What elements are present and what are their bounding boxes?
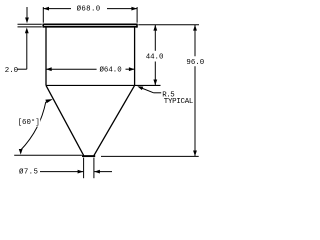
dimension Ø7.5 right extension line: [93, 158, 95, 179]
dimension Ø68.0 left arrowhead: [43, 7, 49, 11]
leader R.5 horizontal segment: [154, 92, 162, 94]
dimension Ø68.0 right arrowhead: [131, 7, 137, 11]
flange left edge: [42, 24, 44, 28]
dimension 44.0 and 96.0 upper extension line: [138, 24, 199, 26]
dimension 2.0 lower arrowhead: [25, 28, 29, 34]
dimension Ø7.5 right arrowhead: [94, 170, 100, 174]
dimension 96.0 line lower segment: [194, 66, 196, 156]
body right wall: [134, 27, 136, 85]
dimension 2.0 leader horizontal: [17, 68, 26, 70]
dimension 96.0 line upper segment: [194, 25, 196, 56]
funnel top face edge: [43, 23, 137, 25]
dimension 44.0 line lower segment: [154, 62, 156, 86]
angle dimension lower arrowhead: [19, 149, 23, 155]
dimension Ø64.0 line right segment: [126, 68, 135, 70]
dimension 2.0 upper arrowhead: [25, 18, 29, 24]
dimension 96.0 lower arrowhead: [193, 151, 197, 157]
dimension 2.0 lower extension line: [18, 26, 42, 28]
dimension Ø64.0 line left segment: [46, 68, 97, 70]
flange right edge: [136, 24, 138, 28]
dimension Ø64.0 right arrowhead: [129, 67, 135, 71]
svg-text:Ø64.0: Ø64.0: [100, 65, 122, 74]
dimension Ø7.5 line right segment: [94, 171, 112, 173]
funnel flange underside edge: [43, 26, 137, 28]
dimension Ø68.0 right extension line: [136, 7, 138, 23]
dimension 2.0 upper arrow shaft: [26, 7, 28, 19]
svg-text:[60°]: [60°]: [18, 118, 40, 127]
dimension 2.0 upper extension line: [18, 23, 42, 25]
svg-text:Ø7.5: Ø7.5: [19, 168, 38, 177]
svg-text:2.0: 2.0: [5, 67, 18, 75]
angle dimension upper arrowhead: [45, 99, 53, 103]
angle reference line at bottom: [14, 154, 82, 156]
dimension 2.0 leader vertical: [26, 33, 28, 70]
angle dimension arc: [20, 102, 46, 151]
dimension Ø7.5 line left segment: [40, 171, 83, 173]
dimension 44.0 upper arrowhead: [153, 25, 157, 31]
dimension Ø7.5 left extension line: [83, 158, 85, 179]
body left wall: [45, 27, 47, 85]
cone right edge: [94, 85, 135, 155]
leader R.5 arrowhead: [137, 86, 143, 90]
svg-text:44.0: 44.0: [146, 54, 164, 62]
spout bottom face edge: [82, 155, 95, 157]
text [60°] background: [17, 119, 40, 127]
dimension Ø68.0 left extension line: [42, 7, 44, 23]
dimension Ø68.0 line right segment: [107, 8, 137, 10]
cone left edge: [46, 85, 84, 155]
cylinder-cone junction edge plus 44.0 lower extension line: [46, 84, 161, 86]
dimension 96.0 lower extension line: [101, 155, 199, 157]
dimension Ø64.0 left arrowhead: [46, 67, 52, 71]
leader R.5 diagonal segment: [139, 87, 154, 93]
svg-text:96.0: 96.0: [186, 59, 204, 67]
dimension 44.0 line upper segment: [154, 25, 156, 51]
dimension 96.0 upper arrowhead: [193, 25, 197, 31]
svg-text:TYPICAL: TYPICAL: [164, 98, 193, 106]
dimension Ø7.5 left arrowhead: [78, 170, 84, 174]
dimension 44.0 lower arrowhead: [153, 80, 157, 86]
svg-text:Ø68.0: Ø68.0: [77, 5, 101, 14]
dimension Ø68.0 line left segment: [43, 8, 71, 10]
